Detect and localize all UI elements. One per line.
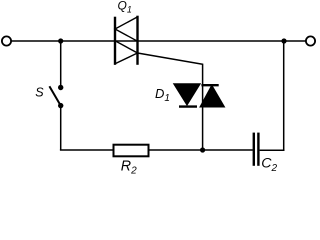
resistor R2 (114, 145, 149, 157)
svg-text:C2: C2 (261, 156, 277, 174)
triac Q1 (115, 16, 138, 65)
svg-text:S: S (35, 86, 44, 100)
svg-text:Q1: Q1 (118, 0, 132, 15)
wire bottom middle (149, 149, 253, 151)
node left junction (58, 38, 63, 43)
wire left branch lower (60, 107, 62, 150)
svg-text:D1: D1 (155, 86, 170, 104)
wire bottom left (60, 149, 114, 151)
wire left branch upper (60, 41, 62, 86)
diac D1 (174, 84, 224, 107)
switch S (49, 85, 63, 109)
node diac-bottom junction (200, 147, 205, 152)
wire triac gate (138, 53, 203, 150)
wire right branch (283, 41, 285, 150)
terminal left (2, 36, 11, 45)
node right junction (281, 38, 286, 43)
capacitor C2 (253, 133, 260, 166)
wire bottom right (260, 149, 285, 151)
svg-text:R2: R2 (121, 158, 137, 175)
terminal right (306, 36, 315, 45)
wire top rail (11, 40, 306, 42)
